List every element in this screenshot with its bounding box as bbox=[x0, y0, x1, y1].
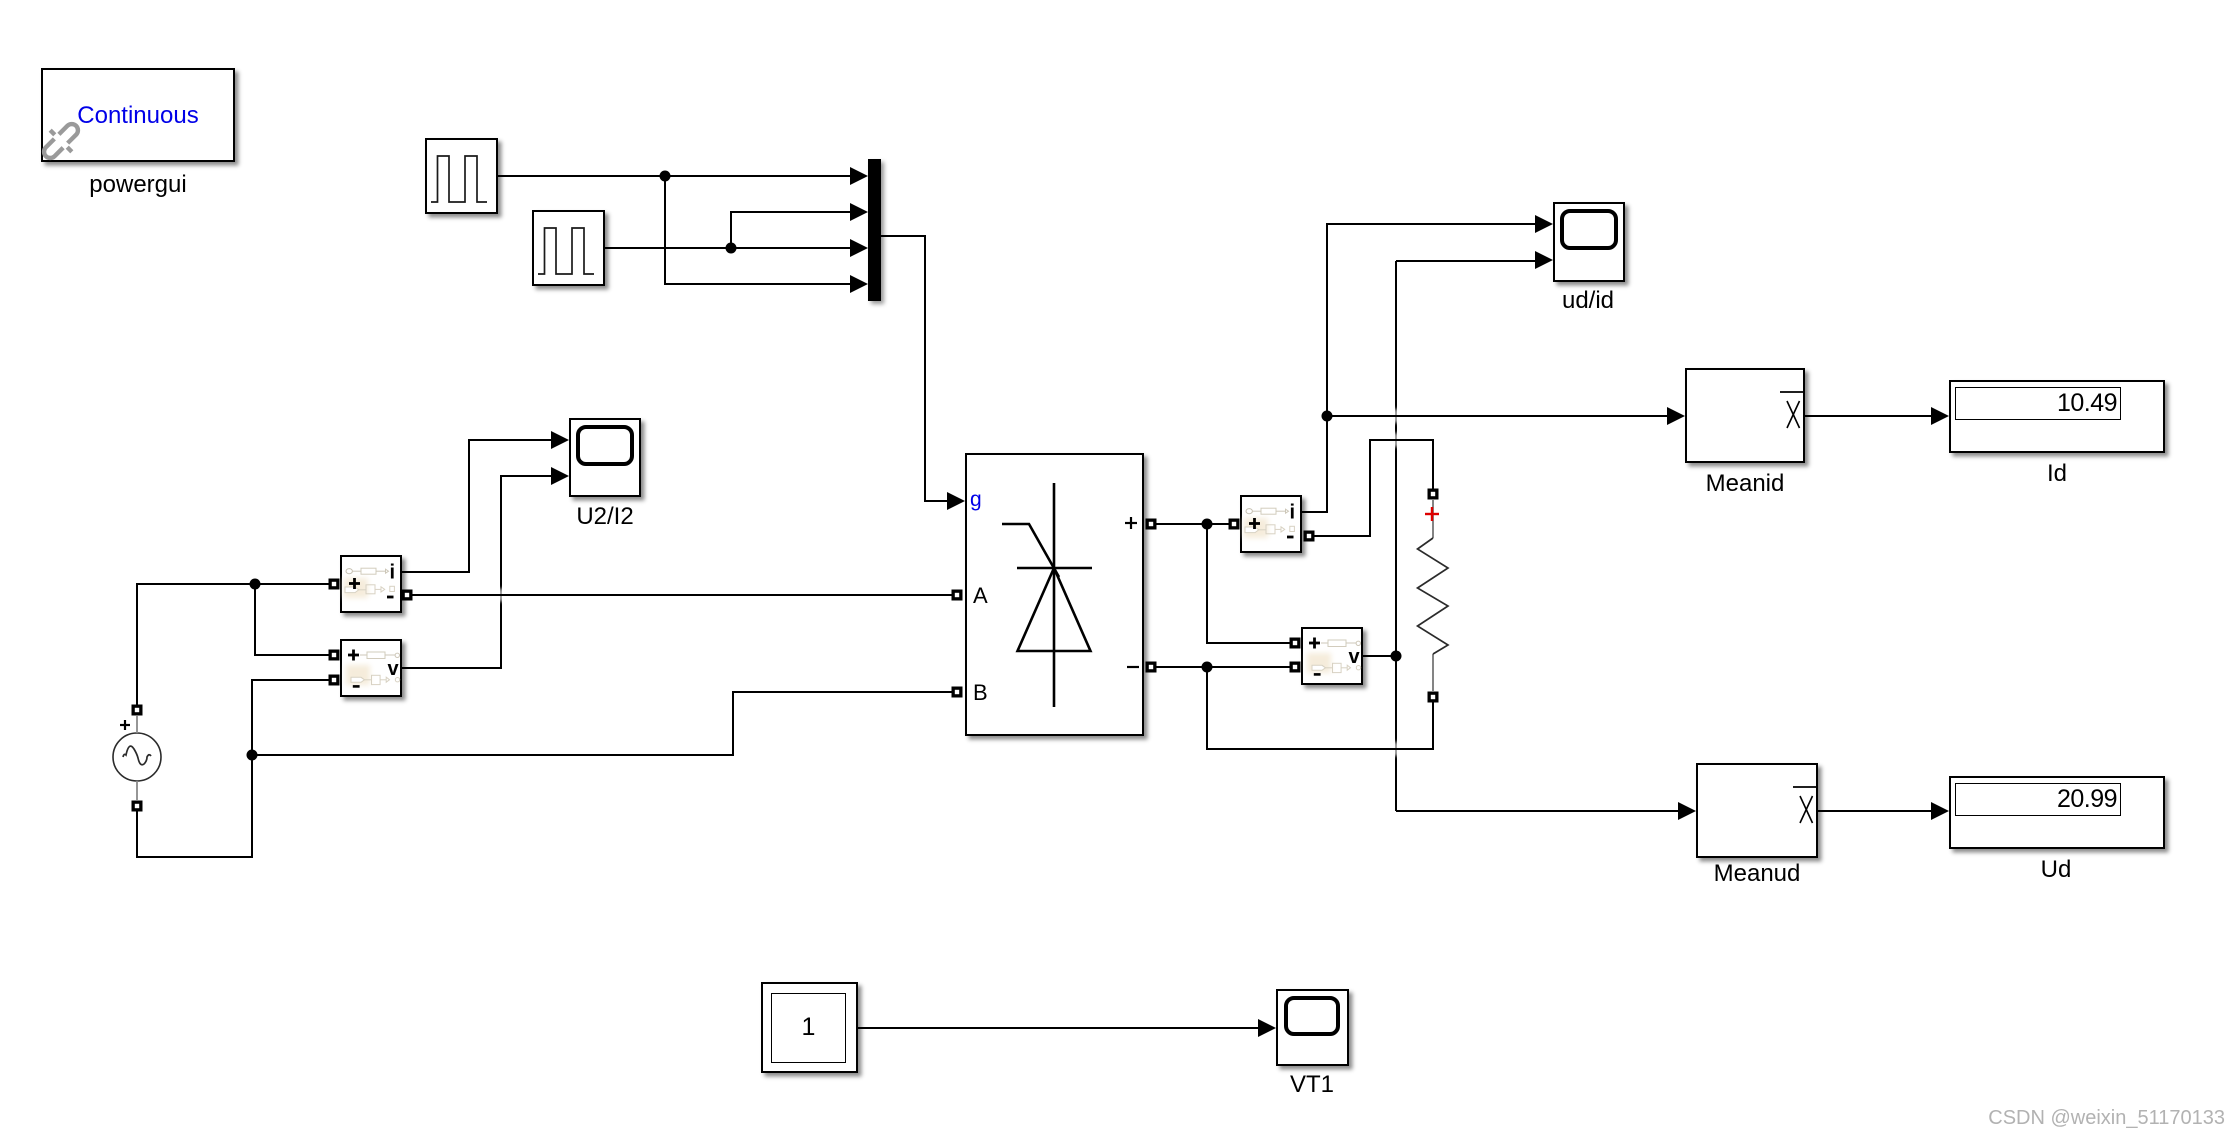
svg-text:g: g bbox=[970, 488, 982, 511]
svg-text:B: B bbox=[973, 680, 988, 705]
svg-text:A: A bbox=[973, 583, 988, 608]
